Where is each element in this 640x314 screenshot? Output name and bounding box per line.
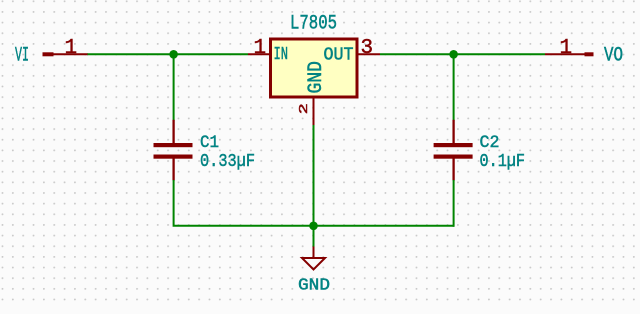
wire GND pin down to bottom rail <box>313 125 315 226</box>
pin 2 line (GND) <box>313 99 315 126</box>
svg-text:GND: GND <box>305 61 328 94</box>
svg-text:1: 1 <box>254 37 267 60</box>
wire J3 to ground symbol <box>313 226 315 247</box>
wire C2 down to bottom rail <box>453 180 455 227</box>
node junction J3 <box>309 222 318 231</box>
svg-text:C2: C2 <box>480 133 500 153</box>
wire VI to IN pin <box>88 53 249 55</box>
wire OUT pin to VO <box>380 53 545 55</box>
svg-text:1: 1 <box>560 37 573 60</box>
pin 1 of VO connector <box>545 53 585 55</box>
svg-text:VO: VO <box>604 44 623 67</box>
pin 1 line (IN) <box>248 53 269 55</box>
voltage regulator U1 L7805 body <box>271 39 358 97</box>
ground symbol <box>302 247 325 270</box>
node junction J1 <box>169 50 178 59</box>
svg-text:1: 1 <box>65 37 78 60</box>
wire C1 down to bottom rail <box>174 180 454 226</box>
svg-text:IN: IN <box>274 45 289 65</box>
wire junction J1 down to C1 <box>173 54 175 120</box>
svg-text:L7805: L7805 <box>290 13 337 36</box>
svg-text:GND: GND <box>298 276 330 295</box>
pin 1 of VI connector <box>53 53 88 55</box>
connector J-VI body <box>43 52 54 56</box>
pin 3 line (OUT) <box>359 53 381 55</box>
svg-text:0.1µF: 0.1µF <box>480 152 526 172</box>
svg-text:C1: C1 <box>200 133 219 153</box>
capacitor C2 <box>434 120 473 181</box>
node junction J2 <box>449 50 458 59</box>
wire junction J2 down to C2 <box>453 54 455 120</box>
svg-text:3: 3 <box>361 37 374 60</box>
svg-text:0.33µF: 0.33µF <box>200 152 255 172</box>
svg-text:OUT: OUT <box>324 46 354 66</box>
svg-text:2: 2 <box>298 103 311 114</box>
capacitor C1 <box>154 120 193 181</box>
svg-text:VI: VI <box>15 44 29 67</box>
connector J-VO body <box>585 52 594 56</box>
